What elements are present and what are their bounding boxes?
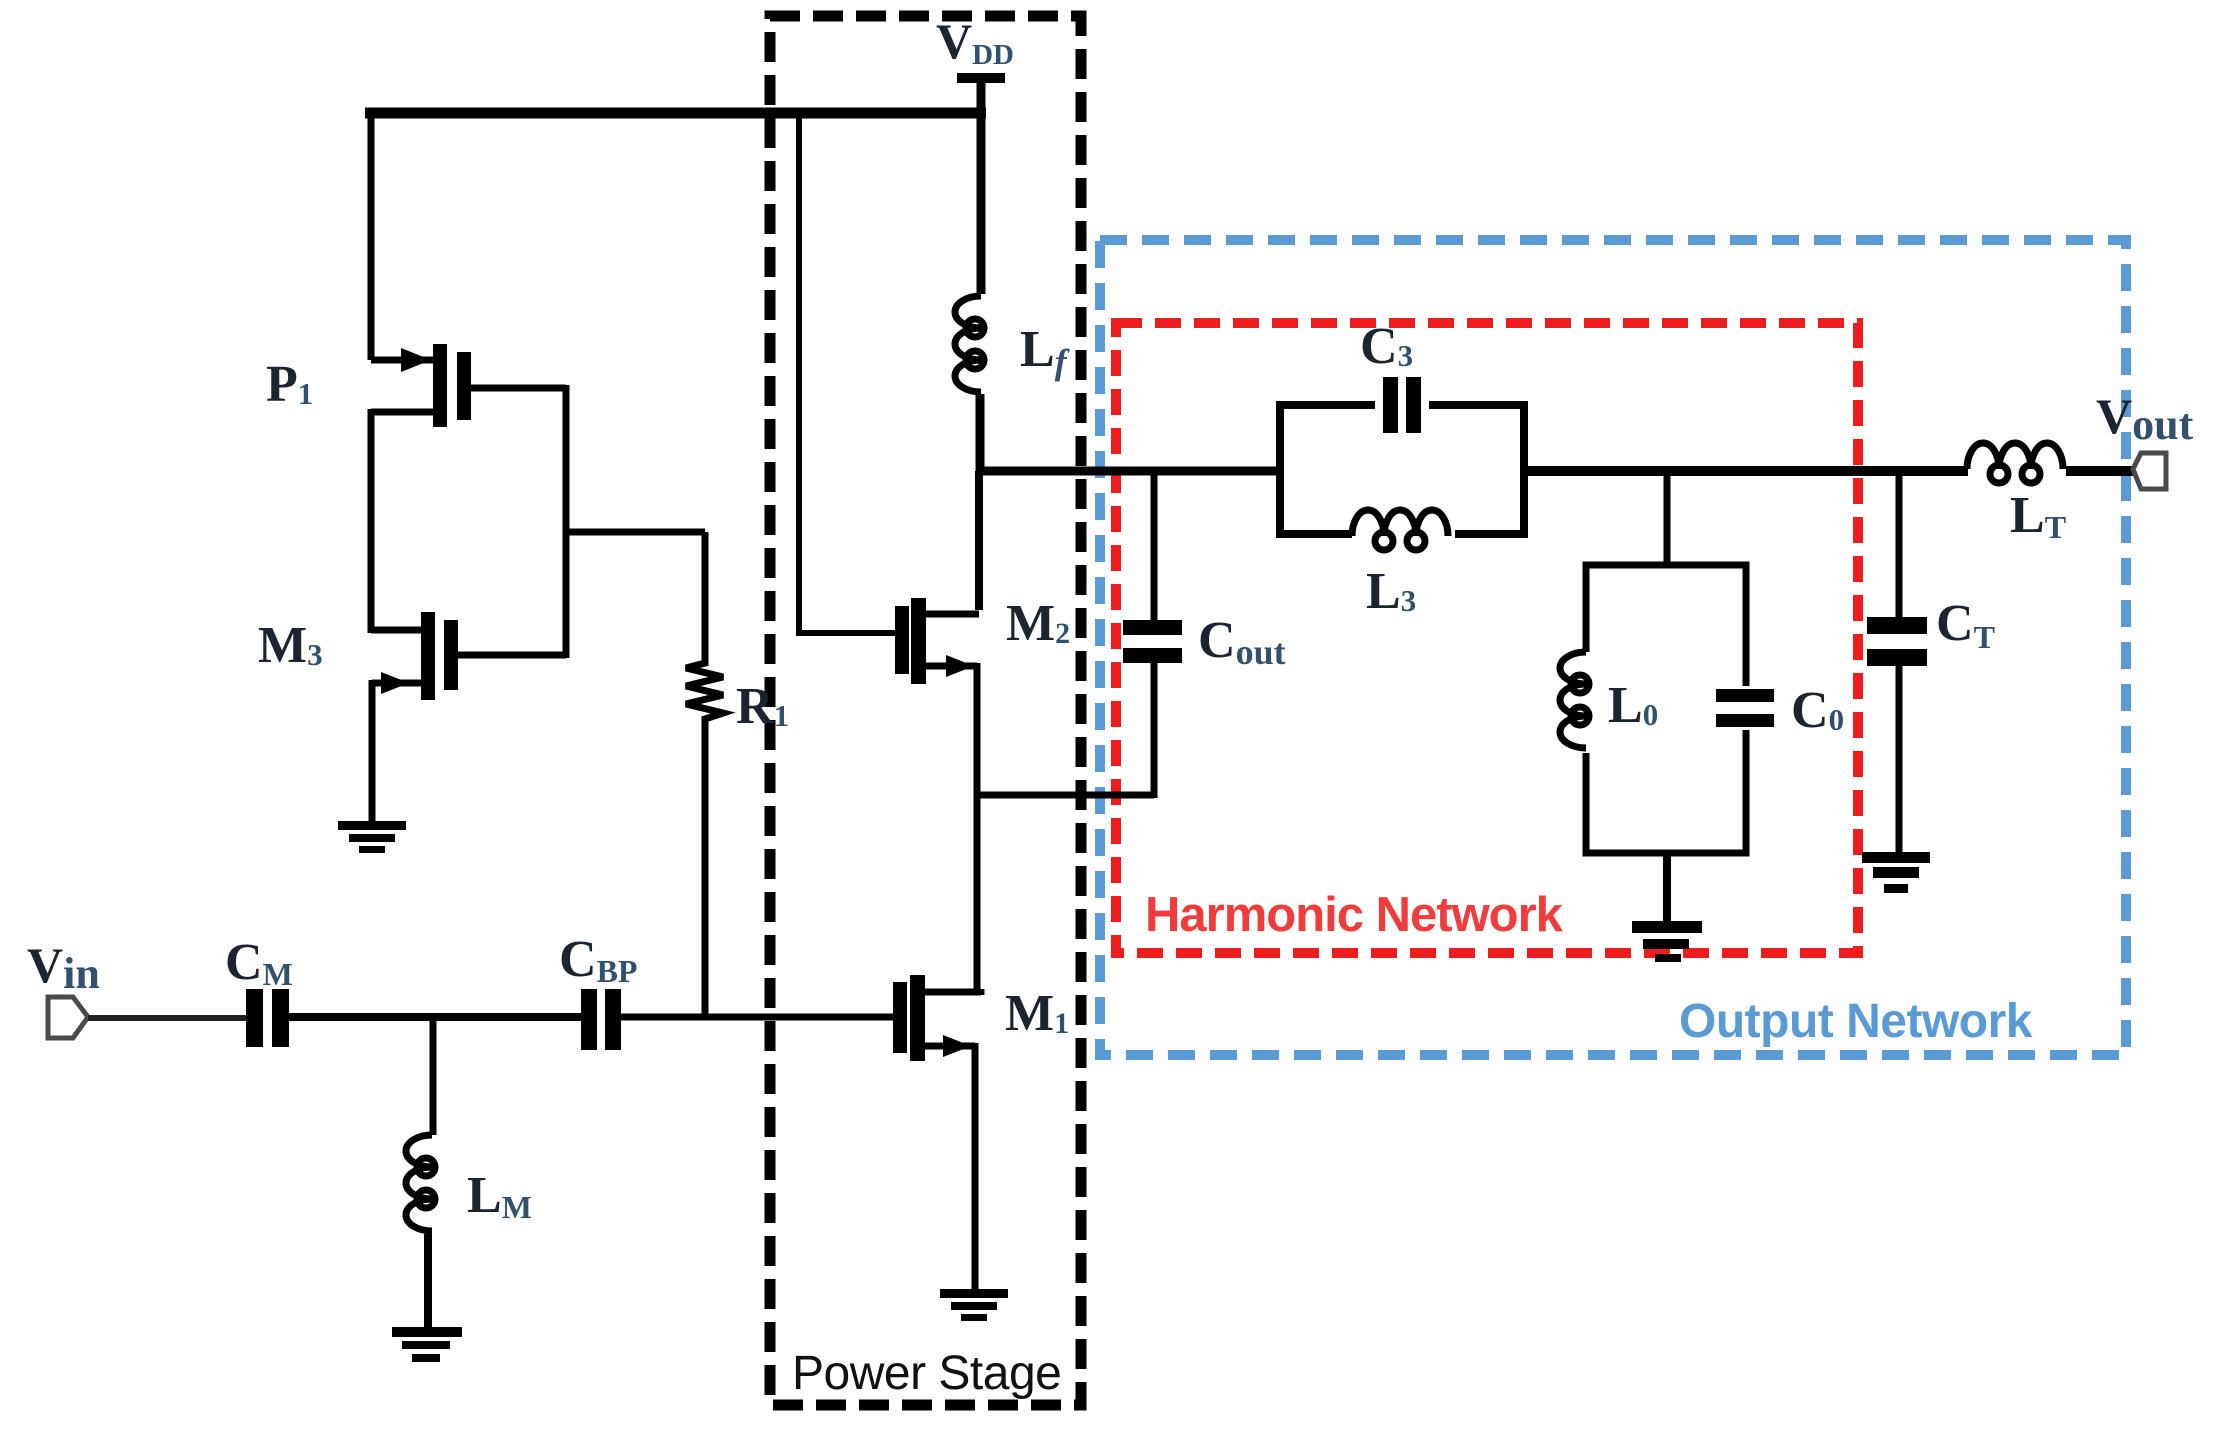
inductor Lf xyxy=(955,296,984,392)
wire: tank bottom to ground xyxy=(1663,853,1671,922)
wire: M3 source to ground xyxy=(369,680,376,825)
svg-text:Harmonic Network: Harmonic Network xyxy=(1145,888,1564,942)
output network dashed box xyxy=(1100,240,2126,1055)
wire: LM to ground xyxy=(424,1234,432,1330)
svg-text:Power Stage: Power Stage xyxy=(792,1347,1061,1400)
wire: branch to Cout bottom xyxy=(977,792,1154,799)
inductor L3 xyxy=(1352,510,1448,550)
C3 L3 tank box xyxy=(1280,405,1524,534)
main output node wire xyxy=(976,467,1278,476)
wire: CM to CBP xyxy=(289,1013,581,1021)
wire: LM drop xyxy=(430,1017,437,1135)
wire: branch to R1 xyxy=(563,529,705,536)
inductor LM xyxy=(406,1135,435,1231)
wire: M2 gate drop xyxy=(796,110,802,633)
VDD symbol xyxy=(957,73,1005,83)
wire: Lf bottom to node xyxy=(976,394,985,475)
capacitor CM xyxy=(246,989,289,1047)
transistor M1 xyxy=(893,975,981,1061)
capacitor C0 xyxy=(1716,689,1774,727)
inductor LT xyxy=(1967,443,2063,483)
transistor P1 xyxy=(371,344,566,427)
wire: M1 drain up xyxy=(978,989,985,995)
Vout terminal xyxy=(2133,453,2166,489)
ground under L0C0 xyxy=(1632,921,1702,962)
wire: Vin to CM xyxy=(88,1015,246,1021)
wire: gate bias vertical xyxy=(563,385,570,658)
capacitor CT xyxy=(1867,468,1927,854)
ground under LM xyxy=(392,1327,462,1362)
wire: P1 drain to M3 drain xyxy=(368,409,375,633)
wire: tank to Vout xyxy=(1524,466,1968,476)
wire: M2 gate lead xyxy=(796,630,895,636)
ground under M1 xyxy=(940,1289,1008,1321)
harmonic network dashed box xyxy=(1116,323,1858,953)
wire: M1 source to ground xyxy=(972,1043,979,1290)
svg-text:Output Network: Output Network xyxy=(1679,995,2033,1048)
wire: P1 source drop xyxy=(368,108,375,360)
transistor M3 xyxy=(371,612,566,700)
ground under CT xyxy=(1862,852,1930,893)
inductor L0 xyxy=(1560,652,1589,748)
power stage dashed box xyxy=(770,16,1081,1405)
wire: CBP to M1 gate xyxy=(621,1014,893,1021)
transistor M2 xyxy=(895,598,979,684)
L0 C0 tank box xyxy=(1586,565,1746,853)
ground under M3 xyxy=(338,821,406,853)
capacitor CBP xyxy=(581,989,621,1050)
capacitor C3 xyxy=(1383,377,1421,433)
wire: drop to L0C0 tank xyxy=(1664,471,1671,565)
wire: M2 source down to M1 drain xyxy=(974,663,981,995)
Vin terminal xyxy=(48,997,88,1038)
wire: top VDD rail xyxy=(365,108,986,119)
capacitor Cout xyxy=(1123,468,1182,798)
resistor R1 xyxy=(686,532,723,1017)
wire: M2 drain up to node xyxy=(975,471,983,610)
